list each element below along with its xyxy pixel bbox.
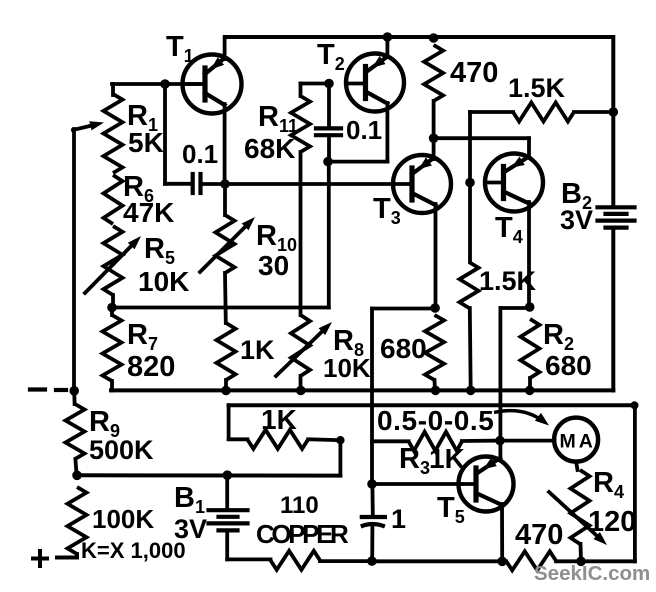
wire 680 left bottom lead xyxy=(433,380,437,391)
wire T4 emitter branch drop xyxy=(498,308,502,459)
wire cap 1 bottom lead xyxy=(370,527,374,561)
arrow potentiometer tap to R1 xyxy=(73,126,90,130)
wire T1 base wire xyxy=(112,82,199,86)
svg-text:10K: 10K xyxy=(323,353,371,383)
wire 1.5K mid bottom lead xyxy=(468,308,473,391)
svg-text:1K: 1K xyxy=(261,404,297,435)
svg-text:MA: MA xyxy=(560,431,596,453)
resistor R8 10K variable xyxy=(291,315,310,376)
wire minus terminal dash 2 xyxy=(56,388,66,392)
wire T1 emitter drop xyxy=(223,104,227,184)
svg-text:0.1: 0.1 xyxy=(182,139,218,169)
svg-text:1: 1 xyxy=(391,504,406,534)
wire 110 copper right lead xyxy=(320,559,372,563)
wire R7 bottom lead xyxy=(110,381,114,390)
wire 1.5K top right lead xyxy=(574,110,613,114)
wire B2 bottom lead xyxy=(611,228,615,390)
node 1K box right corner xyxy=(336,436,344,444)
wire T3 node to T4 collector xyxy=(434,136,529,140)
resistor R3 1K xyxy=(409,432,462,451)
node T5 base junction xyxy=(367,479,377,489)
wire T4 emitter drop xyxy=(527,202,531,307)
node R5/R7 junction xyxy=(107,303,117,313)
node box top right corner xyxy=(631,401,639,409)
wire meter bottom lead xyxy=(576,462,577,470)
node T2 base junction xyxy=(324,79,334,89)
svg-text:47K: 47K xyxy=(123,197,174,228)
node T4 base junction xyxy=(465,178,475,188)
node T4 emitter junction xyxy=(525,302,535,312)
svg-text:470: 470 xyxy=(515,519,563,551)
resistor R10 30 variable xyxy=(216,215,235,273)
wire 1K bottom lead xyxy=(224,380,228,391)
svg-text:0.1: 0.1 xyxy=(346,115,382,145)
wire T4 emitter node left xyxy=(500,306,529,310)
battery B2 plates xyxy=(598,205,635,209)
resistor 1K box xyxy=(247,430,308,449)
node R9 bottom junction xyxy=(72,471,82,481)
wire R11 top lead xyxy=(299,84,303,97)
resistor R9 500K xyxy=(66,404,85,459)
wire B1 top lead xyxy=(225,475,229,509)
resistor R7 820 xyxy=(103,315,122,381)
svg-text:68K: 68K xyxy=(244,133,295,164)
svg-text:COPPER: COPPER xyxy=(256,519,349,549)
svg-text:0.5-0-0.5: 0.5-0-0.5 xyxy=(377,405,494,436)
svg-text:3V: 3V xyxy=(174,514,207,544)
resistor R2 680 xyxy=(521,319,540,378)
node T1 base junction A xyxy=(160,79,170,89)
resistor 110 copper xyxy=(271,551,321,570)
svg-text:1.5K: 1.5K xyxy=(508,73,566,103)
svg-text:K=X 1,000: K=X 1,000 xyxy=(81,538,186,563)
plus terminal xyxy=(38,551,42,566)
wire 1.5K mid top lead xyxy=(468,183,472,263)
capacitor 0.1 left plates xyxy=(191,174,195,193)
svg-text:1K: 1K xyxy=(429,443,465,474)
transistor T1 xyxy=(183,55,242,114)
wire R10 to 1K xyxy=(223,273,228,323)
wire 100K bottom lead to plus xyxy=(75,554,79,558)
wire R3 right lead xyxy=(462,439,500,443)
node B1 top junction xyxy=(223,470,233,480)
svg-text:470: 470 xyxy=(450,57,498,89)
node T3 emitter junction xyxy=(430,303,440,313)
node 470 / T3 collector junction xyxy=(429,133,439,143)
wire R4 bottom lead xyxy=(579,544,583,561)
resistor 1.5K top xyxy=(513,103,574,122)
wire 470 bottom lead xyxy=(432,101,436,139)
wire B1 bottom lead xyxy=(225,530,229,559)
wire R1 top lead xyxy=(111,84,115,95)
wire R9 top lead xyxy=(72,391,76,404)
resistor 100K xyxy=(68,487,87,554)
resistor R4 120 variable xyxy=(571,470,590,544)
node T1 emitter / R10 junction xyxy=(220,179,230,189)
wire T3 emitter drop xyxy=(434,204,438,308)
svg-text:120: 120 xyxy=(588,506,636,538)
resistor R11 68K xyxy=(291,96,310,152)
svg-text:1K: 1K xyxy=(240,335,275,365)
wire B1 top bus xyxy=(77,473,340,477)
svg-text:1.5K: 1.5K xyxy=(479,266,537,296)
wire bottom rail to T5 emitter xyxy=(372,559,502,563)
wire cap 0.1 T2 top lead xyxy=(327,84,331,127)
wire minus terminal dash 1 xyxy=(30,387,45,391)
wire T2 collector to top rail xyxy=(385,37,389,57)
wire 1K box right lead drop xyxy=(338,440,342,475)
wire cap 0.1 T2 bottom lead xyxy=(327,137,331,162)
resistor 470 top xyxy=(424,45,443,101)
node 470 top junction xyxy=(429,33,439,43)
wire T2 base to R11 xyxy=(301,82,331,86)
svg-text:3V: 3V xyxy=(560,205,593,235)
wire bottom negative bus xyxy=(111,388,613,392)
wire R5 bottom lead xyxy=(111,295,115,308)
node minus terminal junction xyxy=(69,386,79,396)
node 1.5K/B2 junction xyxy=(609,107,619,117)
node R2 bottom junction xyxy=(525,386,535,396)
node R3 right / T5 collector junction xyxy=(495,436,505,446)
wire cap 0.1 to T3 base xyxy=(204,182,394,186)
wire R10 top lead xyxy=(223,184,227,215)
node R8 bottom junction xyxy=(296,386,306,396)
transistor T3 xyxy=(393,155,451,213)
transistor T2 xyxy=(346,54,404,112)
wire 470 bottom right lead xyxy=(556,559,581,563)
wire left rail minus xyxy=(72,129,76,391)
arrow R5 wiper xyxy=(85,246,131,293)
wire 470 bottom left lead xyxy=(502,559,506,563)
svg-text:500K: 500K xyxy=(89,435,154,465)
resistor R6 47K xyxy=(104,175,123,224)
wire to cap 0.1 left plate xyxy=(165,182,189,186)
wire R8 bottom lead xyxy=(299,376,303,391)
wire T2 emitter horizontal xyxy=(328,160,387,164)
resistor R5 10K variable xyxy=(104,226,123,295)
wire riser to T2 emitter node xyxy=(327,162,331,308)
wire bottom rail right corner xyxy=(581,559,635,563)
resistor 1K middle-left xyxy=(217,323,236,380)
node cap 1 bottom junction xyxy=(367,556,377,566)
arrow R4 wiper xyxy=(549,492,597,536)
svg-text:680: 680 xyxy=(545,350,592,381)
wire R9 bottom lead xyxy=(75,459,76,475)
wire T1 base node drop xyxy=(163,84,167,184)
wire T3 collector riser xyxy=(432,138,436,159)
node 1K bottom junction xyxy=(221,386,231,396)
wire cap 1 top lead xyxy=(370,484,374,514)
resistor 1.5K mid xyxy=(460,262,479,308)
wire T3 emitter node left xyxy=(372,307,435,311)
wire box top edge xyxy=(229,403,635,407)
node T2 emitter junction xyxy=(323,157,333,167)
wire T3 emitter branch drop xyxy=(370,309,374,485)
arrow to meter xyxy=(494,411,544,422)
wire box left edge to 1K xyxy=(227,405,231,439)
wire right supply drop to B2 xyxy=(611,37,615,206)
capacitor 1 plates xyxy=(362,515,385,519)
resistor 680 left xyxy=(425,315,444,380)
wire 1.5K to T4 base xyxy=(468,112,472,183)
transistor T5 xyxy=(459,457,514,512)
resistor R1 5K xyxy=(104,94,123,173)
wire R7 top lead xyxy=(110,308,114,316)
wire T5 emitter drop xyxy=(500,504,504,561)
wire R2 bottom lead xyxy=(528,378,532,391)
wire 1K box left lead xyxy=(229,437,248,441)
wire 1K box right lead xyxy=(308,437,340,442)
svg-text:110: 110 xyxy=(280,492,319,519)
svg-text:10K: 10K xyxy=(138,266,189,297)
wire T2 emitter drop xyxy=(385,103,389,162)
svg-text:680: 680 xyxy=(380,333,427,364)
wire R5-R7 node to T2 emitter branch xyxy=(112,306,329,310)
wire R3 node to meter xyxy=(500,439,555,443)
resistor 470 bottom xyxy=(506,551,556,570)
svg-text:5K: 5K xyxy=(128,127,164,158)
transistor T4 xyxy=(485,154,543,212)
wire top supply rail xyxy=(225,35,612,39)
wire R11 to R8 xyxy=(299,152,303,315)
arrow R8 wiper xyxy=(276,332,322,376)
node T2 collector junction xyxy=(383,32,393,42)
svg-text:30: 30 xyxy=(258,250,289,281)
svg-text:SeekIC.com: SeekIC.com xyxy=(534,562,650,585)
svg-text:820: 820 xyxy=(127,351,175,383)
arrow R10 wiper xyxy=(200,227,245,272)
wire 1.5K top left lead xyxy=(470,110,513,114)
svg-text:100K: 100K xyxy=(92,504,154,534)
node 1.5K mid bottom junction xyxy=(466,386,476,396)
wire T1 collector to top rail xyxy=(223,37,227,59)
node 680 left bottom junction xyxy=(431,386,441,396)
wire R3 left lead xyxy=(372,439,409,443)
battery B1 plates xyxy=(209,508,248,512)
node R4 bottom junction xyxy=(576,557,586,567)
capacitor 0.1 under T2 plates xyxy=(316,126,341,130)
node T5 emitter bottom junction xyxy=(497,557,507,567)
wire T5 base wire xyxy=(372,482,462,486)
meter MA xyxy=(554,418,598,462)
